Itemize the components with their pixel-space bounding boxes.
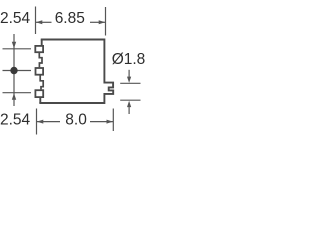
extension line: pin 1 center — [3, 48, 32, 50]
svg-text:2.54: 2.54 — [0, 111, 31, 128]
extension line: top of right terminal — [120, 82, 140, 84]
extension line: left of 6.85 dimension — [35, 7, 37, 35]
dimension arrow left (6.85) — [36, 21, 52, 23]
wire: left edge zigzag between pin 2 and pin 3 — [40, 76, 43, 90]
dimension arrow left (8.0) — [37, 121, 60, 123]
dimension arrow up (2.54 bottom) — [12, 93, 16, 100]
svg-text:Ø1.8: Ø1.8 — [112, 51, 145, 68]
extension line: bottom of right terminal — [120, 99, 140, 101]
svg-text:8.0: 8.0 — [65, 111, 87, 128]
wire: left edge segment below pin 3 — [39, 98, 41, 103]
dimension arrow down (2.54 top) — [12, 42, 16, 49]
dimension arrow right (6.85) — [90, 21, 105, 23]
dimension line: left vertical pitch line — [13, 34, 15, 106]
svg-text:2.54: 2.54 — [0, 10, 31, 27]
pin 3 pad — [35, 90, 43, 97]
extension line: right of 6.85 dimension — [105, 7, 107, 36]
dimension arrow up (Ø1.8) — [127, 101, 131, 107]
extension line: pin 2 center — [3, 70, 32, 72]
dimension arrow right (8.0) — [90, 121, 113, 123]
svg-text:6.85: 6.85 — [55, 10, 85, 27]
pin 1 pad — [35, 46, 43, 52]
dimension arrow down (Ø1.8) — [128, 70, 130, 77]
pin 2 pad — [36, 68, 44, 75]
wire: left edge segment above pin 1 — [41, 40, 43, 46]
extension line: pin 3 center — [3, 92, 32, 94]
extension line: left of 8.0 dimension — [36, 109, 38, 135]
wire: left edge zigzag between pin 1 and pin 2 — [39, 53, 42, 67]
node: pin 2 center marker dot — [10, 67, 17, 74]
component body outline — [40, 40, 113, 104]
extension line: right of 8.0 dimension — [112, 109, 114, 132]
